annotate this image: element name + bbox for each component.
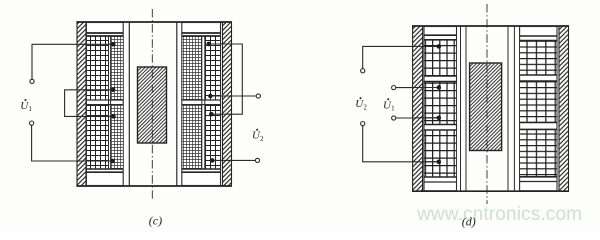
layer divider vertical lines xyxy=(201,36,203,168)
coarse winding area (outer layer) xyxy=(87,36,109,100)
bobbin mid divider xyxy=(86,99,123,101)
bobbin mid divider xyxy=(182,99,221,101)
center axis dash-dot line, fig c xyxy=(151,9,153,201)
wire: secondary output lead lower, fig c right xyxy=(212,159,255,161)
wire: lower primary lead, fig c left xyxy=(32,125,113,161)
wire overdraw: fig c left leads crossing shell bar and winding xyxy=(77,44,114,161)
movable iron core, fig d xyxy=(470,63,502,151)
redraw tap dots over grid xyxy=(206,42,210,46)
left shell bar (hatched), fig c xyxy=(77,22,86,186)
wire: series link of secondary halves, fig c right xyxy=(209,44,243,114)
terminal circle T5 (d, outer top) xyxy=(361,69,365,73)
right shell bar (hatched), fig c xyxy=(223,22,232,186)
tap dots xyxy=(437,44,441,48)
svg-text:(c): (c) xyxy=(149,213,162,227)
wire: upper primary lead, fig c left xyxy=(32,44,113,79)
bobbin flange band top xyxy=(182,32,221,34)
wire: inner lead top, fig d xyxy=(396,87,439,89)
layer divider vertical lines xyxy=(108,36,110,168)
terminal circle T1 (c, left top) xyxy=(30,79,34,83)
wire: inner lead bottom, fig d xyxy=(396,117,439,119)
label U1 (fig c) xyxy=(20,99,32,113)
redraw tap dots over grid xyxy=(111,42,115,46)
wire overdraw: fig d leads crossing shell bar and winding xyxy=(413,46,439,161)
terminal circle T8 (d, inner bottom) xyxy=(392,116,396,120)
label U2 (fig c) xyxy=(252,129,264,143)
wire: secondary output lead upper, fig c right xyxy=(210,95,256,97)
svg-text:2: 2 xyxy=(363,103,367,111)
svg-text:(d): (d) xyxy=(462,214,476,228)
coarse winding strip (outer layer) xyxy=(205,36,221,100)
node: winding tap dot c-left y44 xyxy=(111,42,115,46)
bobbin flange band top xyxy=(86,32,123,34)
shell bottom plate line, fig c xyxy=(76,185,232,187)
wire stubs over grid xyxy=(111,44,114,161)
fine winding strip (inner layer) xyxy=(111,36,123,100)
svg-text:1: 1 xyxy=(28,105,32,113)
node: winding tap dot c-right y114 xyxy=(209,112,213,116)
svg-text:1: 1 xyxy=(391,105,395,113)
shell top plate line, fig c xyxy=(76,21,232,23)
right shell bar (hatched), fig d xyxy=(559,26,569,191)
bobbin tube walls, fig c xyxy=(129,22,177,186)
terminal circle T7 (d, inner top) xyxy=(392,86,396,90)
svg-text:www.cntronics.com: www.cntronics.com xyxy=(416,204,582,225)
fine winding area (inner layer) xyxy=(182,36,201,100)
node: winding tap dot c-left y116 xyxy=(111,114,115,118)
node: winding tap dot c-right y96 xyxy=(208,94,212,98)
bobbin flange band bottom xyxy=(182,168,221,170)
shell top plate line, fig d xyxy=(412,25,569,27)
node: winding tap dot c-left y161 xyxy=(110,159,114,163)
wire overdraw: fig c right leads crossing shell bar xyxy=(209,44,231,160)
section bands xyxy=(520,35,557,37)
wire: outer lead bottom, fig d xyxy=(363,126,439,162)
left winding block frame, fig c xyxy=(86,23,123,186)
node: winding tap dot c-right y44 xyxy=(206,42,210,46)
terminal circle T6 (d, outer bottom) xyxy=(361,122,365,126)
node: winding tap dot c-left y90 xyxy=(111,88,115,92)
wire: outer lead top, fig d xyxy=(363,46,439,68)
wire: series link bracket between winding halves, fig c left xyxy=(65,90,114,117)
bobbin flange band bottom xyxy=(86,168,123,170)
left winding block (3 sections), fig d xyxy=(424,27,457,191)
right winding block frame, fig c xyxy=(182,23,221,186)
movable iron core, fig c xyxy=(138,67,167,143)
terminal circle T4 (c, right bottom) xyxy=(255,158,259,162)
terminal circle T2 (c, left bottom) xyxy=(30,121,34,125)
wire stubs over grid xyxy=(424,46,439,161)
terminal circle T3 (c, right top) xyxy=(256,94,260,98)
shell bottom plate line, fig d xyxy=(412,190,569,192)
section bands xyxy=(424,34,457,36)
node: winding tap dot c-right y160 xyxy=(210,158,214,162)
label U1 (fig d) xyxy=(383,98,395,112)
node redraw dots fig c left xyxy=(110,42,441,164)
left shell bar (hatched), fig d xyxy=(413,26,423,191)
right winding block (3 sections), fig d xyxy=(520,27,557,191)
center axis dash-dot line, fig d xyxy=(486,4,488,204)
label U2 (fig d) xyxy=(355,97,367,111)
svg-text:2: 2 xyxy=(260,135,264,143)
bobbin tube walls, fig d xyxy=(461,26,515,191)
